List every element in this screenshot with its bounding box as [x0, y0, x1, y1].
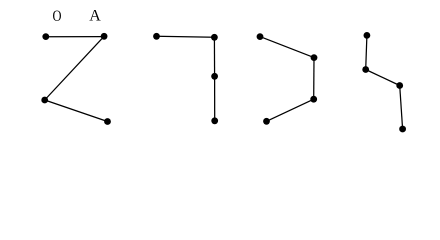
node R4 (figure 3 bottom-left): [263, 118, 270, 125]
wire segment Q2-Q3 (figure 2 upper vertical): [213, 37, 215, 76]
wire segment Q1-Q2 (figure 2 top horizontal): [157, 36, 215, 37]
wire segment Q3-Q4 (figure 2 lower vertical): [214, 76, 216, 121]
node R2 (figure 3 upper-right): [311, 54, 318, 61]
wire segment R1-R2 (figure 3 upper diagonal): [260, 37, 314, 58]
node Q4 (figure 2 bottom): [211, 117, 218, 124]
node P1 (figure 1, point O): [42, 33, 49, 40]
wire segment P3-P4 (figure 1 diagonal down-right): [45, 100, 108, 122]
node Q1 (figure 2 top-left): [153, 33, 160, 40]
wire segment S3-S4 (figure 4 lower vertical): [400, 86, 403, 130]
node P4 (figure 1 bottom-right): [104, 118, 111, 125]
node Q2 (figure 2 top-right): [211, 34, 218, 41]
node S4 (figure 4 bottom): [399, 126, 406, 133]
svg-text:A: A: [89, 8, 101, 25]
node S3 (figure 4 middle-right): [396, 82, 403, 89]
wire segment R3-R4 (figure 3 lower diagonal): [267, 99, 314, 121]
node S1 (figure 4 top): [364, 32, 371, 39]
node R3 (figure 3 lower-right): [310, 96, 317, 103]
wire segment R2-R3 (figure 3 vertical): [313, 58, 315, 100]
wire segment S2-S3 (figure 4 diagonal): [366, 70, 400, 86]
svg-text:O: O: [53, 8, 62, 25]
node Q3 (figure 2 middle): [211, 73, 218, 80]
node R1 (figure 3 top-left): [257, 33, 264, 40]
node P2 (figure 1, point A): [101, 33, 108, 40]
wire segment P2-P3 (figure 1 diagonal down-left): [45, 36, 104, 100]
node P3 (figure 1 middle-left): [41, 97, 48, 104]
wire segment P1-P2 (figure 1 top horizontal): [46, 36, 104, 38]
node S2 (figure 4 middle-left): [362, 66, 369, 73]
wire segment S1-S2 (figure 4 upper vertical): [366, 35, 367, 69]
